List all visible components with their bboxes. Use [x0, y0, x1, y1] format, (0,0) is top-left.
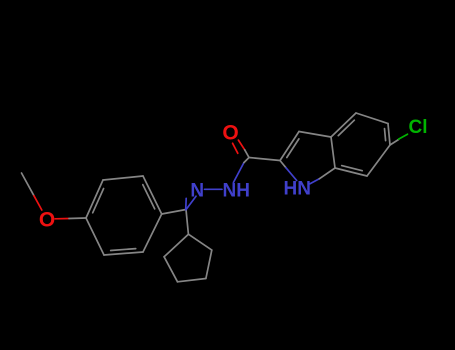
bond C1-cyclopentyl: [186, 210, 188, 235]
cyclopentane ring: [164, 234, 212, 282]
bond C3a-C7a: [331, 137, 335, 168]
svg-text:HN: HN: [284, 179, 311, 200]
double bond C1=N: [186, 196, 196, 210]
bond O-C(aryl): [55, 217, 86, 220]
double bond C2=C3 indole: [280, 132, 299, 161]
bond N1-C7a: [310, 168, 335, 184]
benzo ring of indole: [331, 113, 390, 176]
benzene ring (4-methoxyphenyl): [86, 176, 162, 255]
double bond C=O: [233, 140, 245, 153]
svg-text:N: N: [190, 180, 204, 201]
bond C2-N1: [280, 161, 297, 181]
bond NH-C(O): [233, 158, 249, 183]
svg-text:O: O: [222, 121, 238, 144]
svg-text:NH: NH: [223, 180, 250, 201]
bond C3-C3a: [299, 132, 331, 138]
bond C5-Cl: [390, 134, 408, 145]
svg-text:O: O: [39, 208, 55, 231]
bond C(aryl)-C1: [162, 210, 186, 215]
bond C(O)-C2: [245, 150, 280, 161]
svg-text:Cl: Cl: [409, 117, 428, 138]
bond CH3-O (methoxy methyl): [22, 173, 42, 210]
bond N-N: [205, 188, 223, 190]
